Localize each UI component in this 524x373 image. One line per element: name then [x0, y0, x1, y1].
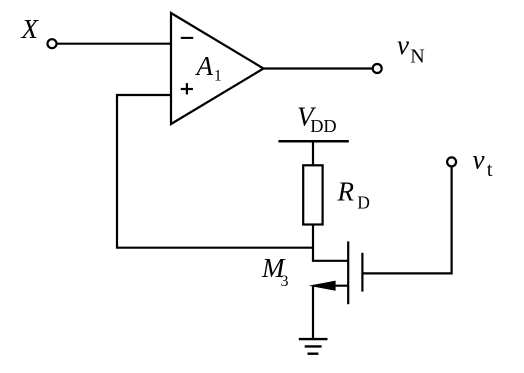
- svg-text:v: v: [397, 30, 409, 60]
- svg-text:DD: DD: [310, 116, 336, 136]
- svg-text:3: 3: [281, 273, 289, 290]
- svg-text:N: N: [410, 46, 424, 68]
- svg-text:A: A: [195, 51, 214, 81]
- svg-text:v: v: [473, 144, 485, 174]
- svg-text:1: 1: [214, 67, 222, 84]
- svg-text:R: R: [337, 177, 355, 207]
- svg-text:D: D: [357, 193, 370, 213]
- svg-text:t: t: [487, 159, 493, 181]
- svg-text:X: X: [21, 14, 40, 44]
